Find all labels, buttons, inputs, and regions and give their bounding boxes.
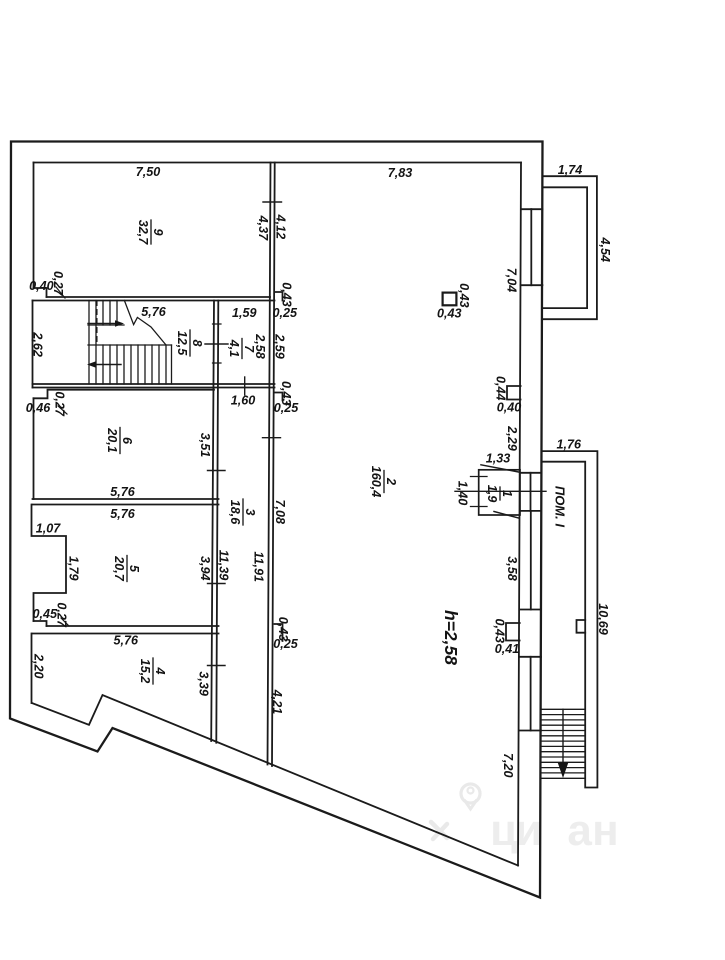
svg-text:1,74: 1,74 xyxy=(558,163,583,177)
svg-text:0,40: 0,40 xyxy=(497,401,522,415)
stairs room 8 landing line xyxy=(88,344,172,346)
window 3,58 glazing xyxy=(530,512,532,610)
room 5 bottom wall xyxy=(47,625,219,627)
annex inner wall notch xyxy=(577,620,586,633)
room 9 label xyxy=(136,220,165,246)
svg-text:2,62: 2,62 xyxy=(30,331,44,357)
svg-text:12,5: 12,5 xyxy=(175,331,189,357)
svg-text:4,1: 4,1 xyxy=(227,339,241,358)
notch 0,43x0,25 top on divider xyxy=(275,292,283,301)
room 1 left wall ticks xyxy=(471,477,488,507)
svg-text:а: а xyxy=(567,806,592,855)
dimension tick on corridor left wall y583 xyxy=(208,583,226,585)
svg-text:8: 8 xyxy=(190,339,204,346)
outer wall boundary xyxy=(10,142,543,898)
notch 0,43x0,25 low on divider xyxy=(275,624,283,641)
stairs room 8 lower flight treads xyxy=(103,345,172,384)
rooms 8,7 bottom wall upper line xyxy=(33,383,275,385)
room 2 label xyxy=(369,466,398,498)
svg-text:1,33: 1,33 xyxy=(486,452,511,466)
inner top wall line (rooms 9 and 2) xyxy=(34,162,522,164)
stairs room 8 upper flight treads xyxy=(89,301,117,385)
svg-text:1: 1 xyxy=(500,490,514,497)
svg-text:0,43: 0,43 xyxy=(279,282,293,307)
window sill y730.5 xyxy=(519,730,541,732)
dimension tick on corridor left wall y470 xyxy=(208,470,226,472)
annex stairs arrow shaft xyxy=(562,709,564,763)
svg-text:ПОМ. I: ПОМ. I xyxy=(553,486,568,528)
svg-text:4,21: 4,21 xyxy=(270,689,284,715)
room 5 left wall with niche 1,07x1,79 xyxy=(32,505,67,622)
balcony inner wall xyxy=(542,187,587,308)
leader arrow room6 notch xyxy=(58,406,67,414)
wall room9/room8 upper line xyxy=(47,296,271,298)
svg-text:4,54: 4,54 xyxy=(598,237,612,263)
svg-text:5,76: 5,76 xyxy=(110,507,136,521)
svg-text:2,20: 2,20 xyxy=(31,653,45,679)
svg-text:1,59: 1,59 xyxy=(232,306,257,320)
dimension tick on corridor right wall y437 xyxy=(263,437,281,439)
svg-text:0,43: 0,43 xyxy=(492,618,506,643)
svg-text:2: 2 xyxy=(384,477,398,485)
svg-text:32,7: 32,7 xyxy=(136,220,150,246)
dimension tick room7 left wall y344 xyxy=(205,343,228,345)
svg-text:9: 9 xyxy=(151,228,165,235)
svg-text:15,2: 15,2 xyxy=(138,659,152,684)
svg-text:7,50: 7,50 xyxy=(136,165,161,179)
svg-text:5,76: 5,76 xyxy=(110,485,136,499)
svg-text:1,60: 1,60 xyxy=(231,394,256,408)
door jamb top (room1 to annex) xyxy=(520,472,541,474)
svg-text:0,27: 0,27 xyxy=(51,271,65,297)
door jamb bottom xyxy=(520,510,541,512)
svg-text:0,27: 0,27 xyxy=(54,602,68,628)
dimension tick on corridor left wall y665 xyxy=(208,665,226,667)
svg-text:0,40: 0,40 xyxy=(29,279,54,293)
watermark cian text xyxy=(490,806,619,855)
svg-text:1,07: 1,07 xyxy=(36,521,62,535)
svg-text:7,83: 7,83 xyxy=(388,166,413,180)
svg-text:0,43: 0,43 xyxy=(437,307,462,321)
svg-text:2,58: 2,58 xyxy=(253,333,267,359)
svg-text:2,29: 2,29 xyxy=(505,425,519,451)
room 6 top wall with notch 0,46x0,27 xyxy=(34,390,215,399)
svg-text:10,69: 10,69 xyxy=(596,603,610,635)
svg-text:2,59: 2,59 xyxy=(273,333,287,359)
room 8 label xyxy=(175,330,204,356)
rooms 8,7 bottom wall lower line xyxy=(33,387,275,389)
annex stairs treads xyxy=(541,709,585,778)
room 9 left wall xyxy=(33,163,35,289)
stairs room 8 dashed centerline xyxy=(96,301,98,346)
svg-text:0,27: 0,27 xyxy=(53,391,67,417)
balcony window sill top xyxy=(521,208,542,210)
leader arrow room9 notch xyxy=(56,287,65,298)
divider wall rooms9-7-3 / room2 left line xyxy=(268,163,271,765)
svg-text:0,45: 0,45 xyxy=(32,607,58,621)
right wall pilaster 0,44x0,40 xyxy=(507,386,521,400)
svg-text:3: 3 xyxy=(243,508,257,515)
svg-text:7,20: 7,20 xyxy=(501,753,515,778)
svg-text:1,76: 1,76 xyxy=(557,437,583,451)
door long tick 1,9 xyxy=(455,490,546,492)
svg-text:3,58: 3,58 xyxy=(505,556,519,581)
room 1 door leaf bottom xyxy=(494,512,519,519)
door frame ticks room7 left wall xyxy=(213,324,222,363)
room 4 label xyxy=(138,658,167,684)
room 1 box xyxy=(479,470,520,515)
wall room9/room8 lower line xyxy=(33,300,275,302)
svg-text:6: 6 xyxy=(120,437,134,445)
inner bottom diagonal wall (rooms 4,3,2) xyxy=(32,695,518,866)
column 0,43x0,43 xyxy=(443,293,457,306)
svg-text:0,41: 0,41 xyxy=(495,642,520,656)
divider wall room2 right line xyxy=(272,163,275,767)
room 5 label xyxy=(112,555,141,582)
room 4 left wall xyxy=(31,634,33,704)
room 5 bottom-left notch 0,45x0,27 xyxy=(34,621,47,626)
svg-text:н: н xyxy=(592,806,619,855)
room 1 label xyxy=(485,485,514,503)
notch 0,43x0,25 mid on divider xyxy=(275,393,283,401)
room 9 bottom-left notch 0,40 x 0,27 xyxy=(34,288,47,297)
room 6 left wall xyxy=(33,398,35,499)
balcony window sill bottom xyxy=(521,284,543,286)
svg-text:0,43: 0,43 xyxy=(457,283,471,308)
inner right wall (room 2) xyxy=(518,163,521,866)
window glazing low xyxy=(530,657,532,731)
svg-text:ц: ц xyxy=(490,806,517,855)
svg-text:7,04: 7,04 xyxy=(505,268,519,293)
svg-text:7,08: 7,08 xyxy=(273,499,287,524)
svg-text:h=2,58: h=2,58 xyxy=(441,610,461,665)
room 5 top wall xyxy=(33,504,219,506)
svg-text:4,37: 4,37 xyxy=(256,215,270,242)
window sill y656.8 xyxy=(520,656,541,658)
svg-text:5,76: 5,76 xyxy=(114,633,140,647)
right wall pilaster 0,43x0,41 xyxy=(506,623,520,641)
room 6 bottom wall xyxy=(33,498,219,500)
room 7 label xyxy=(227,339,256,359)
svg-text:20,1: 20,1 xyxy=(105,427,119,453)
svg-text:3,94: 3,94 xyxy=(198,556,212,581)
annex ПОМ I outer+inner wall xyxy=(542,451,597,787)
annex stairs arrow head xyxy=(558,762,569,778)
svg-text:5,76: 5,76 xyxy=(141,305,167,319)
watermark cian logo ring xyxy=(431,784,480,839)
svg-text:0,25: 0,25 xyxy=(273,306,299,320)
svg-text:3,39: 3,39 xyxy=(197,671,211,696)
svg-text:0,44: 0,44 xyxy=(493,376,507,401)
door frame mid line xyxy=(530,473,532,511)
room 3 label xyxy=(228,499,257,525)
room 4 top wall xyxy=(33,633,219,635)
svg-text:4,12: 4,12 xyxy=(274,214,288,240)
room 8 left wall xyxy=(32,301,34,388)
svg-text:0,46: 0,46 xyxy=(26,401,52,415)
stairs room 8 break zigzag xyxy=(124,301,166,346)
stairs room 8 mid landing line xyxy=(88,324,124,326)
svg-text:0,25: 0,25 xyxy=(273,637,299,651)
svg-text:4: 4 xyxy=(153,666,167,674)
room 1 door leaf top xyxy=(481,465,519,472)
svg-text:20,7: 20,7 xyxy=(112,555,126,582)
dimension tick 4,37/4,12 on divider xyxy=(263,201,282,203)
stairs room 8 up arrow xyxy=(88,323,115,325)
window 3,58 sill xyxy=(520,609,541,611)
room 8/7/3 divider wall right line xyxy=(216,301,218,743)
svg-text:1,40: 1,40 xyxy=(456,481,470,506)
balcony window glazing line xyxy=(530,209,532,285)
svg-text:0,25: 0,25 xyxy=(274,401,300,415)
room 6 label xyxy=(105,427,134,453)
lobby top wall tick 1,60 xyxy=(244,377,246,395)
svg-text:11,91: 11,91 xyxy=(251,551,265,582)
room 8/7/3 divider wall left line xyxy=(211,301,214,742)
svg-text:1,79: 1,79 xyxy=(67,556,81,581)
svg-text:11,39: 11,39 xyxy=(216,550,230,581)
balcony outer wall xyxy=(542,176,597,319)
svg-text:5: 5 xyxy=(127,565,141,573)
svg-text:160,4: 160,4 xyxy=(369,466,383,498)
svg-text:18,6: 18,6 xyxy=(228,500,242,526)
svg-text:и: и xyxy=(515,806,542,855)
svg-text:1,9: 1,9 xyxy=(485,485,499,503)
svg-text:3,51: 3,51 xyxy=(198,433,212,458)
leader arrow room5 notch xyxy=(61,618,69,626)
stairs room 8 down arrow xyxy=(96,364,121,366)
